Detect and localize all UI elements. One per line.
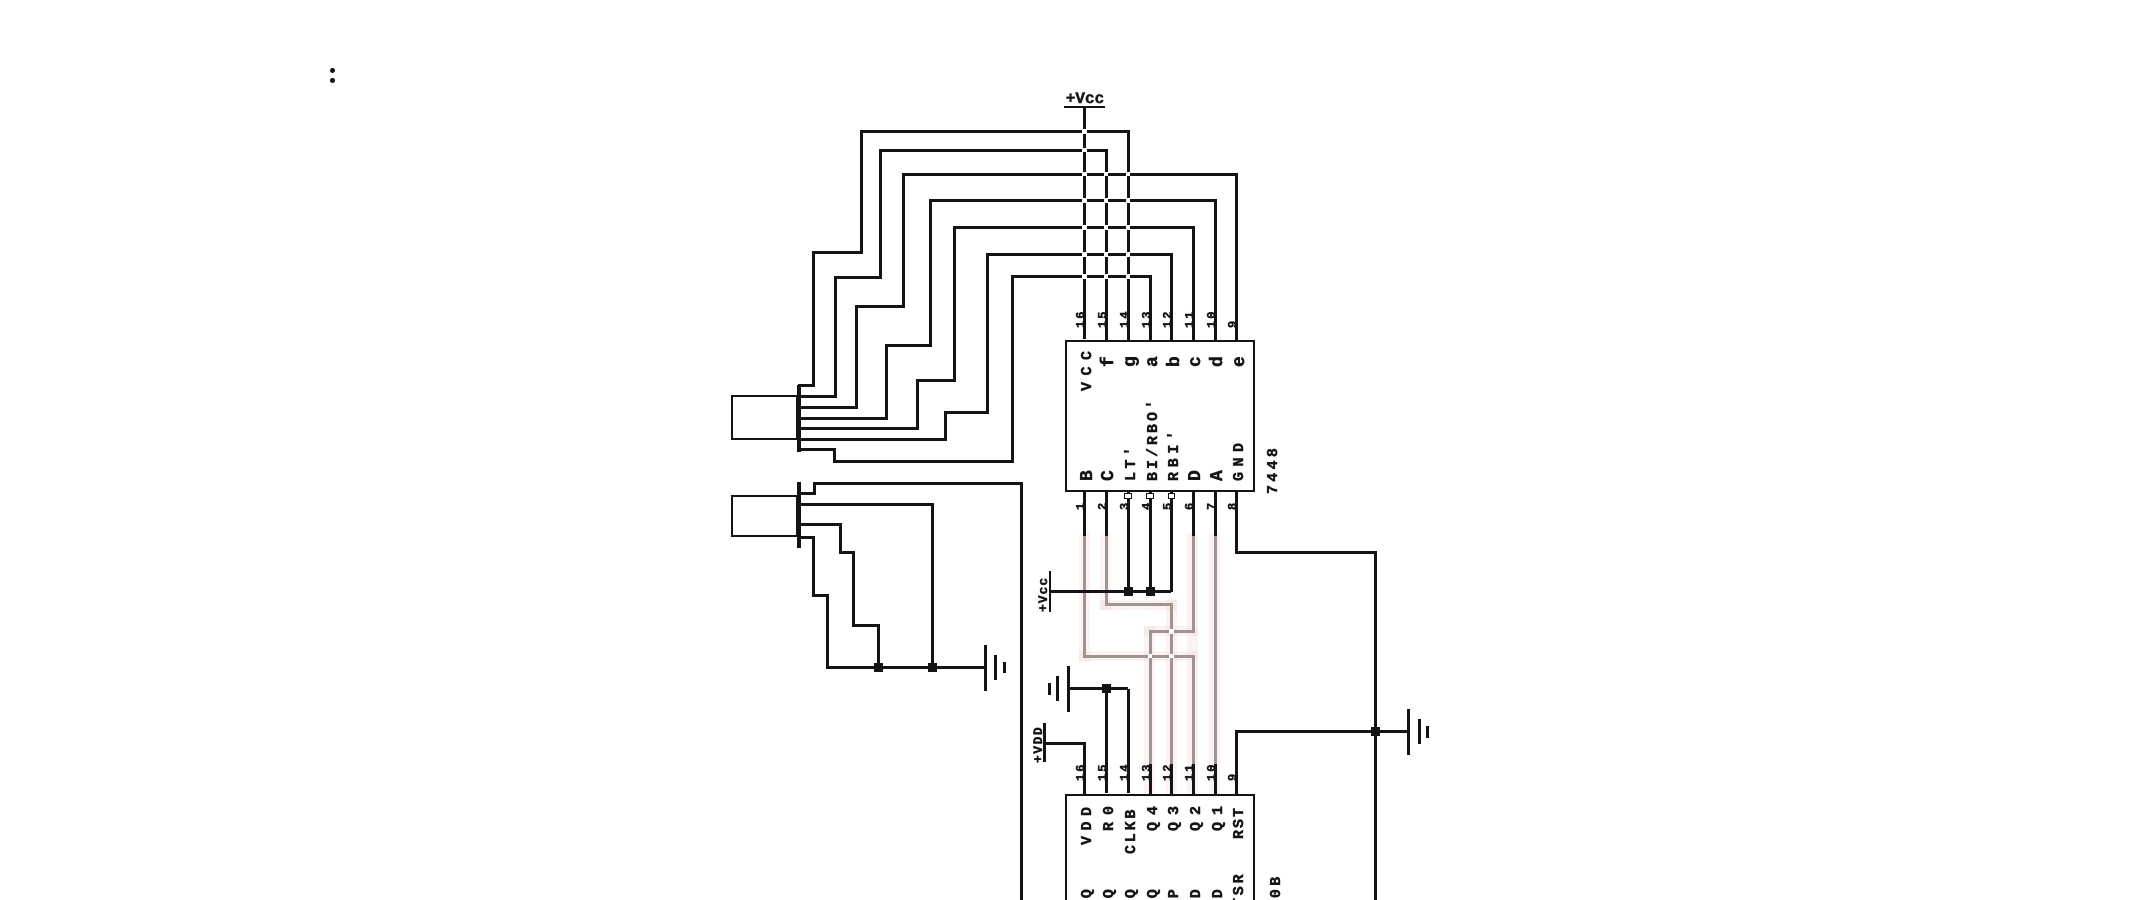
wire U2 pin9 to ground rail [1235,730,1238,795]
pin number 2 (U1 bottom) [1095,503,1107,510]
wire J1.5 to U1 pin11 (c) [798,427,919,430]
pin number 7 (U1 bottom) [1204,503,1216,510]
wire J2.4 to ground bus [798,536,816,539]
wire junction to GND3 [1376,730,1409,733]
wire crossing (no connection) [1082,129,1087,134]
pin 14 stub U2 [1127,689,1130,794]
wire J1.6 to U1 pin12 (b) [798,438,948,441]
pin number 16 (U2 top) [1074,762,1086,781]
pin label g [1121,356,1139,367]
pin 6 stub U1 (D) [1192,492,1195,536]
wire J1.7 to U1 pin13 (a) [798,448,837,451]
pin label GND [1231,437,1246,481]
pin label 1D (U2 bottom) [1188,886,1203,900]
pin label RBI' [1166,426,1181,481]
junction [928,663,937,672]
wire crossing (no connection) [1104,274,1109,279]
junction [1371,727,1380,736]
pin number 12 (U1 top) [1161,309,1173,328]
pin label VDD (U2) [1079,801,1094,845]
pin label CLKB (U2) [1123,806,1138,853]
pin label D [1186,470,1204,481]
wire crossing (no connection) [1126,172,1131,177]
power label +Vcc [1065,89,1103,107]
pin number 14 (U2 top) [1117,762,1129,781]
pin label C [1099,470,1117,481]
wire crossing (no connection) [1148,654,1153,659]
pin label B [1078,470,1096,481]
pin number 11 (U2 top) [1182,762,1194,781]
active-low square bubble [1146,493,1153,499]
wire J2.3 to ground bus [798,523,842,526]
wire U2 output to U1 pin2 C (grey) [1105,533,1108,606]
pin label 2Q (U2 bottom) [1101,886,1116,900]
pin number 9 (U2 top) [1226,772,1238,781]
wire crossing (no connection) [1104,198,1109,203]
pin label b [1165,356,1183,367]
pin label f [1099,356,1117,367]
pin number 1 (U1 bottom) [1074,503,1086,510]
wire +Vcc to U1 pin16 VCC [1083,107,1086,339]
wire crossing (no connection) [1104,172,1109,177]
pin number 10 (U2 top) [1204,762,1216,781]
wire U2 output to U1 pin7 A (grey) [1214,533,1217,765]
pin label Q2 (U2) [1188,798,1203,830]
wire crossing (no connection) [1126,198,1131,203]
wire +Vcc to U1 pins 3,4,5 [1050,590,1172,593]
pin 15 stub U2 [1105,689,1108,794]
active-low square bubble [1124,493,1131,499]
pin label d [1208,356,1226,367]
pin 12 stub U2 [1170,764,1173,794]
pin 4 stub U1 (BI/RBO) to +Vcc [1149,492,1152,592]
connector J1 body [731,395,798,440]
pin 2 stub U1 (C) [1105,492,1108,536]
wire J1.1 to U1 pin14 (g) [798,384,815,387]
pin 3 stub U1 (LT) to +Vcc [1127,492,1130,592]
pin label Q3 (U2) [1166,798,1181,830]
IC U2 4510B counter body (cut off at bottom) [1065,794,1255,900]
pin label 3Q (U2 bottom) [1123,886,1138,900]
pin number 12 (U2 top) [1161,762,1173,781]
junction [1102,684,1111,693]
pin label Q4 (U2) [1145,798,1160,830]
wire crossing (no connection) [1169,629,1174,634]
connector J1 pin bar [797,385,802,452]
wire GND2 to U2 pins 15,14 [1068,687,1128,690]
wire J2.2 to ground bus [798,503,935,506]
pin label EP (U2 bottom) [1166,886,1181,900]
pin number 13 (U2 top) [1139,762,1151,781]
wire crossing (no connection) [1126,252,1131,257]
pin label VCC [1079,344,1094,391]
wire crossing (no connection) [1104,252,1109,257]
soft pink halo strips [1079,533,1090,662]
power +Vcc bar (rotated) [1049,571,1052,612]
pin label 2D (U2 bottom) [1210,886,1225,900]
pin label TSR (U2 bottom) [1231,871,1246,900]
pin number 14 (U1 top) [1117,309,1129,328]
power label +VDD (rotated) [1031,726,1044,763]
active-low square bubble [1168,493,1175,499]
wire ground bus [828,666,985,669]
pin number 5 (U1 bottom) [1161,503,1173,510]
junction [1124,587,1133,596]
pin label e [1230,356,1248,367]
wire J2.1 to U2 bottom (long vertical) [798,492,817,495]
junction [1146,587,1155,596]
power +Vcc bar [1064,106,1105,109]
pin label 4Q (U2 bottom) [1145,886,1160,900]
pin number 15 (U2 top) [1095,762,1107,781]
wire crossing (no connection) [1082,225,1087,230]
power +VDD bar (rotated) [1043,723,1046,762]
pin 11 stub U2 [1192,764,1195,794]
wire J1.4 to U1 pin10 (d) [798,417,888,420]
pin 1 stub U1 (B) [1083,492,1086,536]
ground GND2 (U2 reset pins) [1067,666,1070,712]
pin number 6 (U1 bottom) [1182,503,1194,510]
wire ground rail right [1374,552,1377,900]
wire J1.3 to U1 pin9 (e) [798,406,859,409]
pin number 16 (U1 top) [1074,309,1086,328]
connector J2 body [731,495,798,538]
pin 13 stub U2 [1149,764,1152,794]
pin label Q1 (U2) [1210,798,1225,830]
part label 7448 [1265,445,1280,494]
pin 10 stub U2 [1214,764,1217,794]
wire crossing (no connection) [1126,225,1131,230]
wire crossing (no connection) [1082,172,1087,177]
ground GND3 (main) [1407,709,1410,755]
junction [874,663,883,672]
pin number 11 (U1 top) [1182,309,1194,328]
pin number 9 (U1 top) [1226,318,1238,327]
pin label a [1143,356,1161,367]
wire crossing (no connection) [1082,148,1087,153]
wire crossing (no connection) [1169,654,1174,659]
wire J1.2 to U1 pin15 (f) [798,395,838,398]
pin number 15 (U1 top) [1095,309,1107,328]
pin number 4 (U1 bottom) [1139,503,1151,510]
text colon [330,68,335,73]
wire crossing (no connection) [1082,252,1087,257]
part label 4510B [1268,873,1283,900]
wire U1 pin8 GND to ground [1235,491,1238,554]
pin 7 stub U1 (A) [1214,492,1217,536]
power label +Vcc (rotated) [1036,577,1049,612]
ground GND1 (J2 inputs) [984,645,987,691]
wire U2 output to U1 pin6 D (grey) [1192,533,1195,633]
wire crossing (no connection) [1082,274,1087,279]
IC U1 7448 body [1065,340,1255,493]
wire +VDD to U2 pin16 [1043,742,1086,745]
pin label A [1208,470,1226,481]
pin label R0 (U2) [1101,798,1116,830]
pin label c [1186,356,1204,367]
pin label LT' [1123,443,1138,481]
connector J2 pin bar [797,482,802,549]
pin number 10 (U1 top) [1204,309,1216,328]
wire crossing (no connection) [1082,198,1087,203]
pin 5 stub U1 (RBI) to +Vcc [1170,492,1173,592]
wire crossing (no connection) [1126,274,1131,279]
wire crossing (no connection) [1104,225,1109,230]
pin label BI/RBO' [1145,397,1160,481]
pin number 3 (U1 bottom) [1117,503,1129,510]
pin label RST (U2) [1231,805,1246,838]
wire U2 output to U1 pin1 B (grey) [1083,533,1086,658]
pin number 13 (U1 top) [1139,309,1151,328]
pin label 1Q (U2 bottom) [1079,886,1094,900]
pin number 8 (U1 bottom) [1226,503,1238,510]
